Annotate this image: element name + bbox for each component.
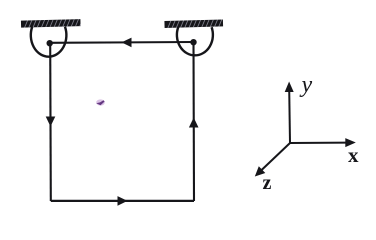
svg-text:x: x bbox=[348, 143, 359, 167]
wire top segment bbox=[50, 41, 194, 44]
coordinate axes: y axis bbox=[288, 89, 291, 143]
current arrow on right wire (pointing up) bbox=[189, 118, 199, 128]
hanger hook / loop (right) bbox=[177, 27, 213, 55]
pivot dot (right) bbox=[190, 39, 196, 45]
current arrow on bottom wire (pointing right) bbox=[118, 196, 128, 206]
current arrow on top wire (pointing left) bbox=[122, 38, 132, 48]
coordinate axes: z axis bbox=[260, 143, 290, 172]
stray purple smudge (scan artifact) bbox=[96, 99, 105, 105]
hanger hook / loop (left) bbox=[31, 27, 67, 57]
ceiling support bar (right, hatched) bbox=[163, 18, 224, 30]
pivot dot (left) bbox=[47, 40, 53, 46]
svg-text:z: z bbox=[263, 172, 272, 194]
ceiling support bar (left, hatched) bbox=[20, 17, 84, 29]
current arrow on left wire (pointing down) bbox=[46, 117, 56, 127]
wire left segment bbox=[49, 43, 52, 201]
wire right segment bbox=[192, 42, 195, 201]
svg-text:y: y bbox=[300, 72, 313, 98]
wire bottom segment bbox=[51, 200, 194, 202]
coordinate axes: x axis bbox=[290, 142, 348, 144]
